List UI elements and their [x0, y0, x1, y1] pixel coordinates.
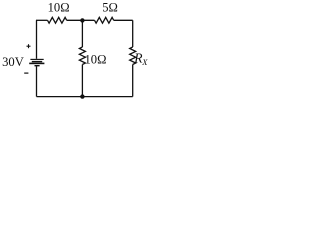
- svg-text:X: X: [141, 57, 148, 67]
- svg-text:10Ω: 10Ω: [48, 1, 70, 15]
- svg-text:5Ω: 5Ω: [102, 1, 118, 15]
- svg-text:30V: 30V: [2, 55, 24, 69]
- svg-text:10Ω: 10Ω: [85, 52, 107, 66]
